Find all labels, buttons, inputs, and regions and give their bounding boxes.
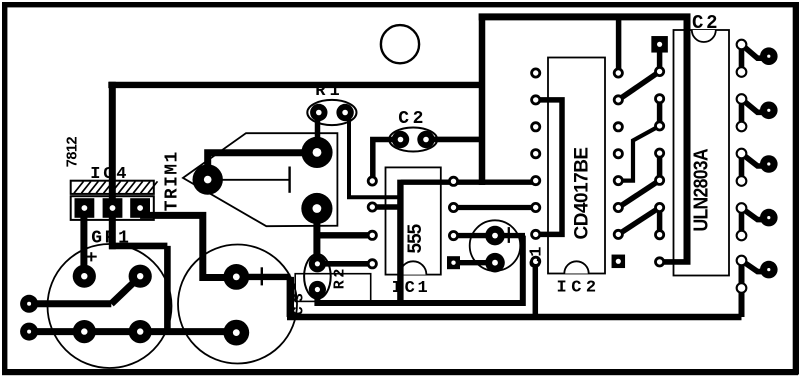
svg-text:R2: R2 <box>332 266 349 289</box>
svg-text:C1: C1 <box>527 245 546 268</box>
svg-text:C2: C2 <box>398 109 427 129</box>
svg-text:CD4017BE: CD4017BE <box>571 147 592 239</box>
svg-text:IC2: IC2 <box>557 279 601 298</box>
svg-text:7812: 7812 <box>65 137 81 168</box>
svg-text:ULN2803A: ULN2803A <box>689 148 711 231</box>
svg-text:IC4: IC4 <box>90 165 129 184</box>
svg-text:IC1: IC1 <box>392 279 431 298</box>
svg-text:C2: C2 <box>692 12 720 34</box>
svg-text:555: 555 <box>405 223 426 253</box>
svg-text:C3: C3 <box>290 289 307 316</box>
svg-text:TRIM1: TRIM1 <box>162 150 182 211</box>
svg-text:GR1: GR1 <box>91 229 131 249</box>
